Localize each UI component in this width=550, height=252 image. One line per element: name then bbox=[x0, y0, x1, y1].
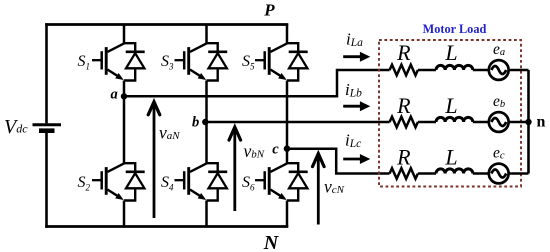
node n junction dot bbox=[525, 119, 531, 125]
wire: leg 2 middle bbox=[205, 81, 208, 164]
transistor S4 (IGBT) bbox=[175, 163, 208, 200]
wire: leg 3 top bbox=[286, 25, 289, 45]
EMF source ec bbox=[489, 164, 509, 184]
arrow: phase voltage vbN bbox=[229, 127, 241, 211]
arrow: phase voltage vaN bbox=[148, 102, 160, 218]
wire: leg 1 bottom bbox=[123, 201, 126, 227]
wire: L to eb (phase b) bbox=[473, 121, 489, 124]
EMF source ea bbox=[489, 60, 509, 80]
wire: eb to neutral bus (phase b) bbox=[509, 121, 529, 124]
svg-text:b: b bbox=[192, 115, 199, 131]
inductor L (phase a) bbox=[436, 65, 473, 70]
wire: ec to neutral bus (phase c) bbox=[509, 172, 529, 175]
wire: leg 2 top bbox=[205, 25, 208, 45]
wire: R to L (phase c) bbox=[418, 172, 436, 175]
motor load dashed enclosure bbox=[379, 40, 521, 187]
wire: leg 1 top bbox=[123, 25, 126, 45]
wire: phase a output (node a to motor row a) bbox=[124, 70, 390, 96]
transistor S3 (IGBT) bbox=[175, 43, 208, 80]
arrow: line current iLa bbox=[343, 52, 370, 62]
svg-text:R: R bbox=[396, 40, 411, 65]
wire: bottom DC bus rail N bbox=[45, 225, 288, 228]
svg-text:L: L bbox=[444, 40, 457, 65]
diode D4 (antiparallel with S4) bbox=[207, 163, 228, 200]
battery Vdc negative plate bbox=[39, 128, 55, 133]
resistor R (phase a) bbox=[390, 65, 418, 76]
wire: L to ec (phase c) bbox=[473, 172, 489, 175]
wire: phase b output (node b to motor row b) bbox=[207, 121, 390, 124]
node c junction dot bbox=[284, 145, 291, 152]
resistor R (phase b) bbox=[390, 117, 418, 128]
svg-text:R: R bbox=[396, 93, 411, 118]
inductor L (phase c) bbox=[436, 169, 473, 174]
svg-text:L: L bbox=[444, 93, 457, 118]
svg-text:a: a bbox=[111, 87, 118, 103]
wire: leg 1 middle bbox=[123, 81, 126, 164]
svg-text:R: R bbox=[396, 145, 411, 170]
svg-text:P: P bbox=[263, 1, 275, 20]
arrow: phase voltage vcN bbox=[313, 154, 325, 225]
diode D1 (antiparallel with S1) bbox=[124, 43, 145, 80]
diode D3 (antiparallel with S3) bbox=[207, 43, 228, 80]
diode D2 (antiparallel with S2) bbox=[124, 163, 145, 200]
wire: ea to neutral bus (phase a) bbox=[509, 69, 529, 72]
battery Vdc positive plate bbox=[33, 123, 62, 126]
transistor S5 (IGBT) bbox=[255, 43, 288, 80]
node a junction dot bbox=[121, 93, 127, 99]
wire: top DC bus rail P bbox=[45, 23, 288, 26]
wire: left rail lower segment bbox=[45, 132, 48, 228]
transistor S1 (IGBT) bbox=[92, 43, 125, 80]
wire: phase c output (node c to motor row c) bbox=[287, 149, 390, 174]
node b junction dot bbox=[202, 119, 208, 125]
wire: leg 2 bottom bbox=[205, 201, 208, 227]
transistor S2 (IGBT) bbox=[92, 163, 125, 200]
svg-text:N: N bbox=[263, 232, 280, 252]
wire: R to L (phase b) bbox=[418, 121, 436, 124]
inductor L (phase b) bbox=[436, 117, 473, 122]
wire: leg 3 middle bbox=[286, 81, 289, 164]
wire: R to L (phase a) bbox=[418, 69, 436, 72]
wire: leg 3 bottom bbox=[286, 201, 289, 227]
wire: left rail upper segment bbox=[45, 23, 48, 123]
diode D5 (antiparallel with S5) bbox=[287, 43, 308, 80]
svg-text:L: L bbox=[444, 145, 457, 170]
arrow: line current iLc bbox=[343, 154, 370, 164]
EMF source eb bbox=[489, 112, 509, 132]
arrow: line current iLb bbox=[343, 101, 370, 111]
diode D6 (antiparallel with S6) bbox=[287, 163, 308, 200]
svg-text:n: n bbox=[537, 114, 546, 131]
svg-text:c: c bbox=[272, 142, 279, 158]
wire: L to ea (phase a) bbox=[473, 69, 489, 72]
resistor R (phase c) bbox=[390, 168, 418, 179]
transistor S6 (IGBT) bbox=[255, 163, 288, 200]
svg-text:Motor Load: Motor Load bbox=[423, 22, 487, 36]
wire: neutral bus (right vertical) bbox=[527, 70, 530, 174]
